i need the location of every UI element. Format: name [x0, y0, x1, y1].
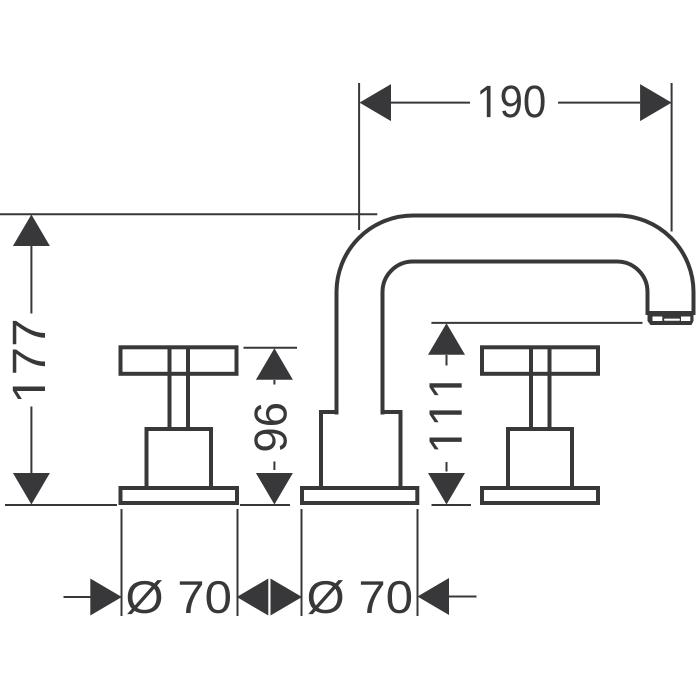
diameter 70 right arrow	[418, 578, 450, 615]
left handle body	[147, 429, 212, 488]
diameter 70 left arrow	[90, 579, 122, 616]
190 dimension line	[391, 102, 640, 104]
diameter 70 right label	[308, 580, 411, 614]
111 top extension	[431, 322, 642, 324]
left handle stem	[170, 347, 189, 429]
177 arrow up	[13, 215, 50, 247]
111 label	[430, 383, 462, 449]
diameter 70 left label	[127, 580, 230, 614]
base reference line segments	[5, 504, 471, 506]
96 dimension stubs	[273, 380, 275, 470]
right handle plate	[482, 488, 598, 503]
190 arrow right	[640, 84, 672, 121]
spout base plate	[302, 488, 417, 503]
spout body	[321, 412, 401, 488]
111 arrow up	[428, 323, 465, 355]
190 arrow left	[360, 84, 392, 121]
111 arrow down	[428, 473, 465, 505]
right handle body	[508, 429, 572, 488]
177 arrow down	[13, 473, 50, 505]
96 arrow down	[256, 473, 293, 505]
96 arrow up	[256, 348, 293, 380]
diamond arrows	[237, 579, 302, 616]
right handle bar	[482, 347, 598, 374]
aerator	[648, 312, 694, 325]
177 label	[13, 321, 45, 399]
96 top extension	[244, 347, 298, 349]
left handle plate	[121, 488, 238, 503]
right handle stem	[531, 347, 550, 429]
spout tube	[337, 216, 694, 415]
reference line top (177)	[0, 213, 377, 215]
177 dimension line	[30, 246, 32, 474]
diameter extension lines	[122, 509, 418, 616]
111 dimension stubs	[446, 355, 448, 472]
96 label	[254, 404, 287, 451]
left handle bar	[121, 347, 237, 374]
190 extension lines	[359, 83, 671, 232]
diameter 70 right leader	[448, 596, 477, 598]
190 label	[480, 85, 544, 117]
diameter 70 left leader	[64, 596, 93, 598]
